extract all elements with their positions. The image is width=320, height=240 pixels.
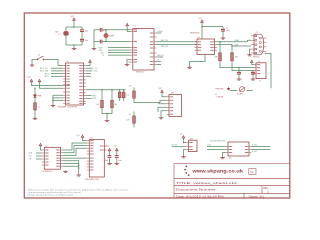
resistor R5 4.7k xyxy=(126,112,135,124)
wire xyxy=(127,26,130,32)
wire net CRX xyxy=(86,71,98,73)
svg-text:10uF: 10uF xyxy=(105,160,108,162)
svg-text:SCL: SCL xyxy=(29,156,32,158)
capacitor C8 termination filter xyxy=(251,71,255,78)
power net VCC for U3 xyxy=(199,18,204,22)
wire xyxy=(252,73,254,75)
svg-text:Q1: Q1 xyxy=(103,30,105,32)
wire xyxy=(73,45,75,47)
wire net ADC5_SCL xyxy=(40,67,63,70)
connector SV1 header xyxy=(167,93,182,117)
wire net MOSI stub xyxy=(86,98,97,100)
ground xyxy=(115,162,120,164)
svg-text:J2: J2 xyxy=(259,80,261,82)
wire xyxy=(201,22,223,39)
ground xyxy=(247,54,252,56)
svg-text:Design: by-skpang / Parts and: Design: by-skpang / Parts and Eagle Cads… xyxy=(28,194,74,197)
wire U1 ground pins xyxy=(127,60,130,64)
svg-text:+3.3V: +3.3V xyxy=(27,77,31,79)
svg-text:MCP23017SO: MCP23017SO xyxy=(43,171,54,173)
svg-text:C: C xyxy=(267,190,269,193)
ground xyxy=(105,119,110,121)
ground xyxy=(251,78,256,80)
capacitor C4 22p xyxy=(94,28,130,32)
wire xyxy=(34,82,63,89)
resistor R6 60R termination xyxy=(231,53,239,61)
capacitor C5 22p xyxy=(94,40,130,44)
node power-top junction xyxy=(73,26,75,28)
wire xyxy=(220,61,254,69)
svg-text:U2: U2 xyxy=(66,61,68,63)
resistor R7 10k xyxy=(111,90,118,108)
wire xyxy=(73,20,75,27)
wire net D3 xyxy=(86,73,91,75)
wire xyxy=(32,60,37,64)
svg-text:www.skpang.co.uk: www.skpang.co.uk xyxy=(191,168,243,174)
power net VCC for IC3 xyxy=(76,135,87,141)
svg-text:10uF: 10uF xyxy=(55,32,59,34)
wire net LED_SW xyxy=(171,145,186,147)
svg-text:+3.3V: +3.3V xyxy=(105,146,109,148)
wire xyxy=(232,61,254,72)
svg-text:MOSI: MOSI xyxy=(99,47,104,49)
svg-text:C_RX: C_RX xyxy=(93,71,97,73)
wire net SDA xyxy=(29,152,42,155)
svg-text:SV2: SV2 xyxy=(190,138,193,140)
node net label ACT2SD_PWR xyxy=(211,139,226,142)
power net VCC right of U2 xyxy=(86,60,92,66)
svg-text:CLKOUT: CLKOUT xyxy=(157,31,163,33)
wire xyxy=(219,42,221,53)
document number label xyxy=(176,189,218,192)
wire net CAN_RXD U1 to U3 xyxy=(156,45,197,48)
svg-text:X1: X1 xyxy=(256,32,258,34)
connector X1 DB9 xyxy=(251,32,267,58)
node power-bottom junction xyxy=(73,44,75,46)
wire xyxy=(106,114,108,120)
power net VCC supply arrow xyxy=(71,16,76,20)
wire bundle IC2 to IC3 w4 xyxy=(63,157,87,159)
power net VCC for SV2 xyxy=(180,133,185,138)
wire xyxy=(134,98,167,102)
rev label xyxy=(263,188,269,193)
wire xyxy=(44,60,63,66)
sheet text xyxy=(249,196,265,199)
wire net stubs bottom right of U1 xyxy=(156,60,161,65)
wire xyxy=(81,27,83,45)
wire net ADC4_SDA xyxy=(40,70,63,73)
svg-text:16MHz: 16MHz xyxy=(109,36,114,38)
wire net ADC3 xyxy=(45,72,64,75)
svg-text:SN65HVD230: SN65HVD230 xyxy=(190,33,200,35)
svg-text:U1: U1 xyxy=(134,26,136,28)
transistor U3 SN65HVD230 transceiver xyxy=(190,33,217,55)
wire net CAN_INT xyxy=(156,54,163,57)
power net VCC for SV1 xyxy=(159,88,164,92)
ground xyxy=(107,162,112,164)
wire xyxy=(102,108,112,114)
wire xyxy=(184,150,187,156)
svg-text:INT: INT xyxy=(29,159,32,161)
svg-text:+5V_LED: +5V_LED xyxy=(171,145,178,147)
svg-text:100n: 100n xyxy=(226,30,230,32)
ground xyxy=(72,47,77,49)
wire SPI bus net SCK xyxy=(100,52,130,54)
svg-text:TITLE: various_shield-v12: TITLE: various_shield-v12 xyxy=(176,181,237,185)
svg-text:4.7k: 4.7k xyxy=(126,120,129,122)
wire bundle IC2 to IC3 w3 xyxy=(63,148,87,155)
resistor R4 4.7k pullup xyxy=(126,86,135,99)
svg-text:100n: 100n xyxy=(85,40,89,42)
svg-text:SV1: SV1 xyxy=(171,93,174,95)
ground xyxy=(51,104,56,106)
wire xyxy=(183,138,186,143)
svg-text:10k: 10k xyxy=(96,104,99,106)
wire xyxy=(207,149,226,151)
svg-text:1/4W 60R: 1/4W 60R xyxy=(217,96,225,98)
ground xyxy=(221,37,226,39)
svg-text:+5V: +5V xyxy=(114,146,117,148)
svg-text:1k: 1k xyxy=(38,107,40,109)
wire xyxy=(133,123,135,127)
capacitor C7 termination filter xyxy=(237,68,241,78)
resistor R3 60R termination xyxy=(215,53,222,61)
resistor R1 1k xyxy=(34,103,40,110)
wire net CTX xyxy=(86,68,97,70)
wire long net to pullups xyxy=(86,89,126,91)
wire net CANH xyxy=(217,40,251,42)
wire SPI bus net MISO xyxy=(99,50,131,52)
license note line 3 xyxy=(28,194,74,197)
svg-text:Date: 8/1/2010 12:56:24 PM: Date: 8/1/2010 12:56:24 PM xyxy=(176,196,224,199)
logo box xyxy=(249,169,256,175)
wire net CLKOUT stub xyxy=(156,31,163,33)
svg-text:MCP2515: MCP2515 xyxy=(136,72,144,74)
wire xyxy=(223,153,226,157)
power net +5V for C10 xyxy=(114,146,118,151)
svg-text:TERM_RES: TERM_RES xyxy=(215,88,223,90)
svg-text:JP: JP xyxy=(158,60,160,62)
wire xyxy=(231,46,233,53)
license note line 1 xyxy=(28,189,130,192)
wire DB9 spare net xyxy=(265,54,271,89)
diode D1 power LED xyxy=(33,88,42,97)
svg-text:S1: S1 xyxy=(38,54,40,56)
wire bundle IC2 to IC3 w1 xyxy=(63,143,87,150)
ground xyxy=(181,156,186,158)
jumper SJ1 solder jumper P-CANTV xyxy=(237,87,245,96)
wire xyxy=(230,90,238,92)
op-amp IC3 74HC4050 buffer xyxy=(85,138,107,181)
wire xyxy=(207,144,226,147)
wire U3 gnd pin xyxy=(190,55,206,67)
wire SPI bus net MOSI xyxy=(99,47,131,49)
svg-text:DB9 F(w): DB9 F(w) xyxy=(253,56,260,58)
wire bundle IC2 to IC3 w2 xyxy=(63,146,87,153)
node net TERM label xyxy=(215,87,230,90)
date text xyxy=(176,196,224,199)
wire xyxy=(34,110,36,117)
wire SPI bus net CS xyxy=(102,55,131,57)
ground xyxy=(63,170,68,172)
capacitor C3 100n xyxy=(80,39,88,42)
title text xyxy=(176,181,237,185)
svg-text:4.7k: 4.7k xyxy=(126,95,129,97)
svg-text:100n: 100n xyxy=(118,160,121,162)
svg-text:IC3: IC3 xyxy=(90,138,93,140)
diode D3 small xyxy=(122,90,125,101)
svg-text:MOSI: MOSI xyxy=(92,98,96,100)
diode D2 small xyxy=(118,90,121,101)
svg-text:C1: C1 xyxy=(59,34,61,36)
wire R mid tap xyxy=(216,94,224,99)
capacitor C9 10uF xyxy=(105,151,112,163)
license note line 2 xyxy=(28,191,81,194)
op-amp IC2 MCP23017 xyxy=(42,145,63,172)
ground xyxy=(237,78,242,80)
wire U2 gnd pins to ground xyxy=(52,95,63,104)
connector SV2 3-pin xyxy=(186,138,197,151)
svg-text:Sheet: 1/1: Sheet: 1/1 xyxy=(249,196,265,199)
svg-text:+5V: +5V xyxy=(180,133,183,135)
wire xyxy=(32,82,64,86)
svg-text:RS: RS xyxy=(129,86,131,88)
capacitor C2 100n xyxy=(80,30,88,33)
wire net ADC2 xyxy=(45,75,64,78)
op-amp IC5 monitor xyxy=(226,142,252,160)
ground xyxy=(76,174,81,176)
ground xyxy=(33,117,38,119)
ground xyxy=(159,117,164,119)
ground xyxy=(92,47,97,49)
ground xyxy=(30,64,35,66)
svg-text:CS: CS xyxy=(102,55,104,57)
power net VCC for IC2 xyxy=(39,143,42,150)
wire to ground rail xyxy=(63,161,80,174)
svg-text:IC5: IC5 xyxy=(229,158,232,160)
wire xyxy=(158,107,167,112)
ground xyxy=(187,66,192,68)
title block outline xyxy=(174,163,290,198)
power net VCC for U1 xyxy=(126,23,129,26)
wire net INT xyxy=(29,159,42,161)
svg-text:C6: C6 xyxy=(226,28,228,30)
wire xyxy=(66,27,82,45)
wire net D4 xyxy=(86,75,91,77)
wire net CANL xyxy=(217,39,251,47)
logo skpang dots xyxy=(184,165,189,176)
connector X2 4-way xyxy=(254,61,266,83)
svg-text:GND-3V3/RS_TRX4: GND-3V3/RS_TRX4 xyxy=(85,179,99,181)
capacitor C1 bulk (polarized) xyxy=(55,31,68,36)
svg-text:U3: U3 xyxy=(198,37,200,39)
power net VCC for X2 xyxy=(250,60,253,63)
svg-text:100n: 100n xyxy=(85,30,89,32)
svg-text:X2: X2 xyxy=(258,61,260,63)
wire xyxy=(252,63,254,65)
svg-text:IC2: IC2 xyxy=(45,145,48,147)
wire xyxy=(158,103,167,105)
svg-text:SS: SS xyxy=(129,114,131,116)
capacitor C10 100n xyxy=(115,151,122,163)
wire xyxy=(161,111,167,117)
svg-text:L_3V: L_3V xyxy=(76,135,80,137)
wire crystal left rail xyxy=(93,30,95,48)
wire xyxy=(251,144,270,147)
logo text www.skpang.co.uk xyxy=(191,168,243,174)
wire DB9 shield to ground xyxy=(250,49,252,54)
wire net MISO stub xyxy=(86,95,97,97)
op-amp U2 ATMEGA328 MCU xyxy=(58,61,86,108)
capacitor C6 100n decoupling xyxy=(221,27,230,37)
svg-text:Document Number:: Document Number: xyxy=(176,189,218,192)
wire xyxy=(247,90,253,92)
svg-text:C_TX: C_TX xyxy=(93,68,97,70)
power net +3.3V for C9 xyxy=(105,146,111,151)
resistor R2 10k xyxy=(96,90,103,108)
op-amp U1 MCP2515 CAN controller xyxy=(130,26,156,74)
wire xyxy=(162,93,167,97)
switch S1 reset xyxy=(37,54,44,60)
power net +3.3V arrows xyxy=(27,77,41,82)
svg-text:10k: 10k xyxy=(115,104,118,106)
wire net CAN_TXD U1 to U3 xyxy=(156,39,197,42)
wire net SCL xyxy=(29,156,42,158)
wire xyxy=(251,150,270,153)
ground xyxy=(220,156,225,158)
crystal Q1 16MHz xyxy=(103,29,114,42)
wire xyxy=(34,98,36,103)
ground xyxy=(125,63,130,65)
schematic sheet frame xyxy=(24,13,290,198)
